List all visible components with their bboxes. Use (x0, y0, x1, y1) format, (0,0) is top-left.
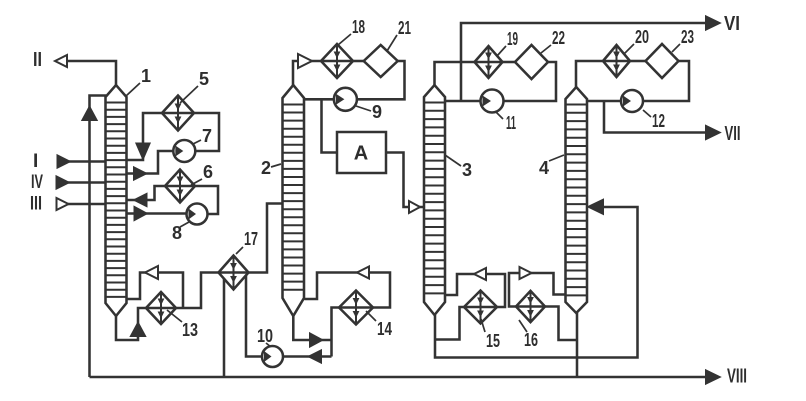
svg-text:IV: IV (31, 172, 43, 193)
svg-text:14: 14 (377, 319, 392, 339)
svg-text:15: 15 (486, 331, 500, 351)
svg-text:5: 5 (199, 69, 209, 89)
svg-text:VI: VI (724, 13, 740, 35)
svg-text:10: 10 (257, 326, 273, 346)
svg-text:A: A (354, 143, 368, 165)
svg-text:1: 1 (141, 66, 151, 86)
svg-text:19: 19 (507, 29, 518, 49)
svg-text:23: 23 (681, 27, 694, 47)
svg-text:9: 9 (372, 102, 382, 122)
svg-text:VIII: VIII (727, 366, 747, 388)
svg-text:12: 12 (652, 111, 665, 131)
svg-text:21: 21 (398, 18, 411, 38)
svg-text:18: 18 (352, 17, 365, 37)
svg-text:11: 11 (506, 113, 516, 133)
svg-text:4: 4 (539, 158, 549, 178)
svg-text:III: III (30, 194, 42, 215)
svg-text:2: 2 (261, 158, 271, 178)
svg-text:16: 16 (524, 330, 538, 350)
svg-text:17: 17 (244, 229, 258, 249)
svg-text:VII: VII (725, 123, 741, 145)
svg-text:20: 20 (635, 27, 649, 47)
svg-text:7: 7 (202, 126, 212, 146)
svg-text:13: 13 (182, 320, 198, 340)
svg-text:22: 22 (552, 28, 565, 48)
svg-text:6: 6 (203, 162, 213, 182)
svg-text:II: II (33, 49, 42, 71)
svg-text:I: I (33, 151, 38, 172)
svg-text:3: 3 (462, 160, 472, 180)
